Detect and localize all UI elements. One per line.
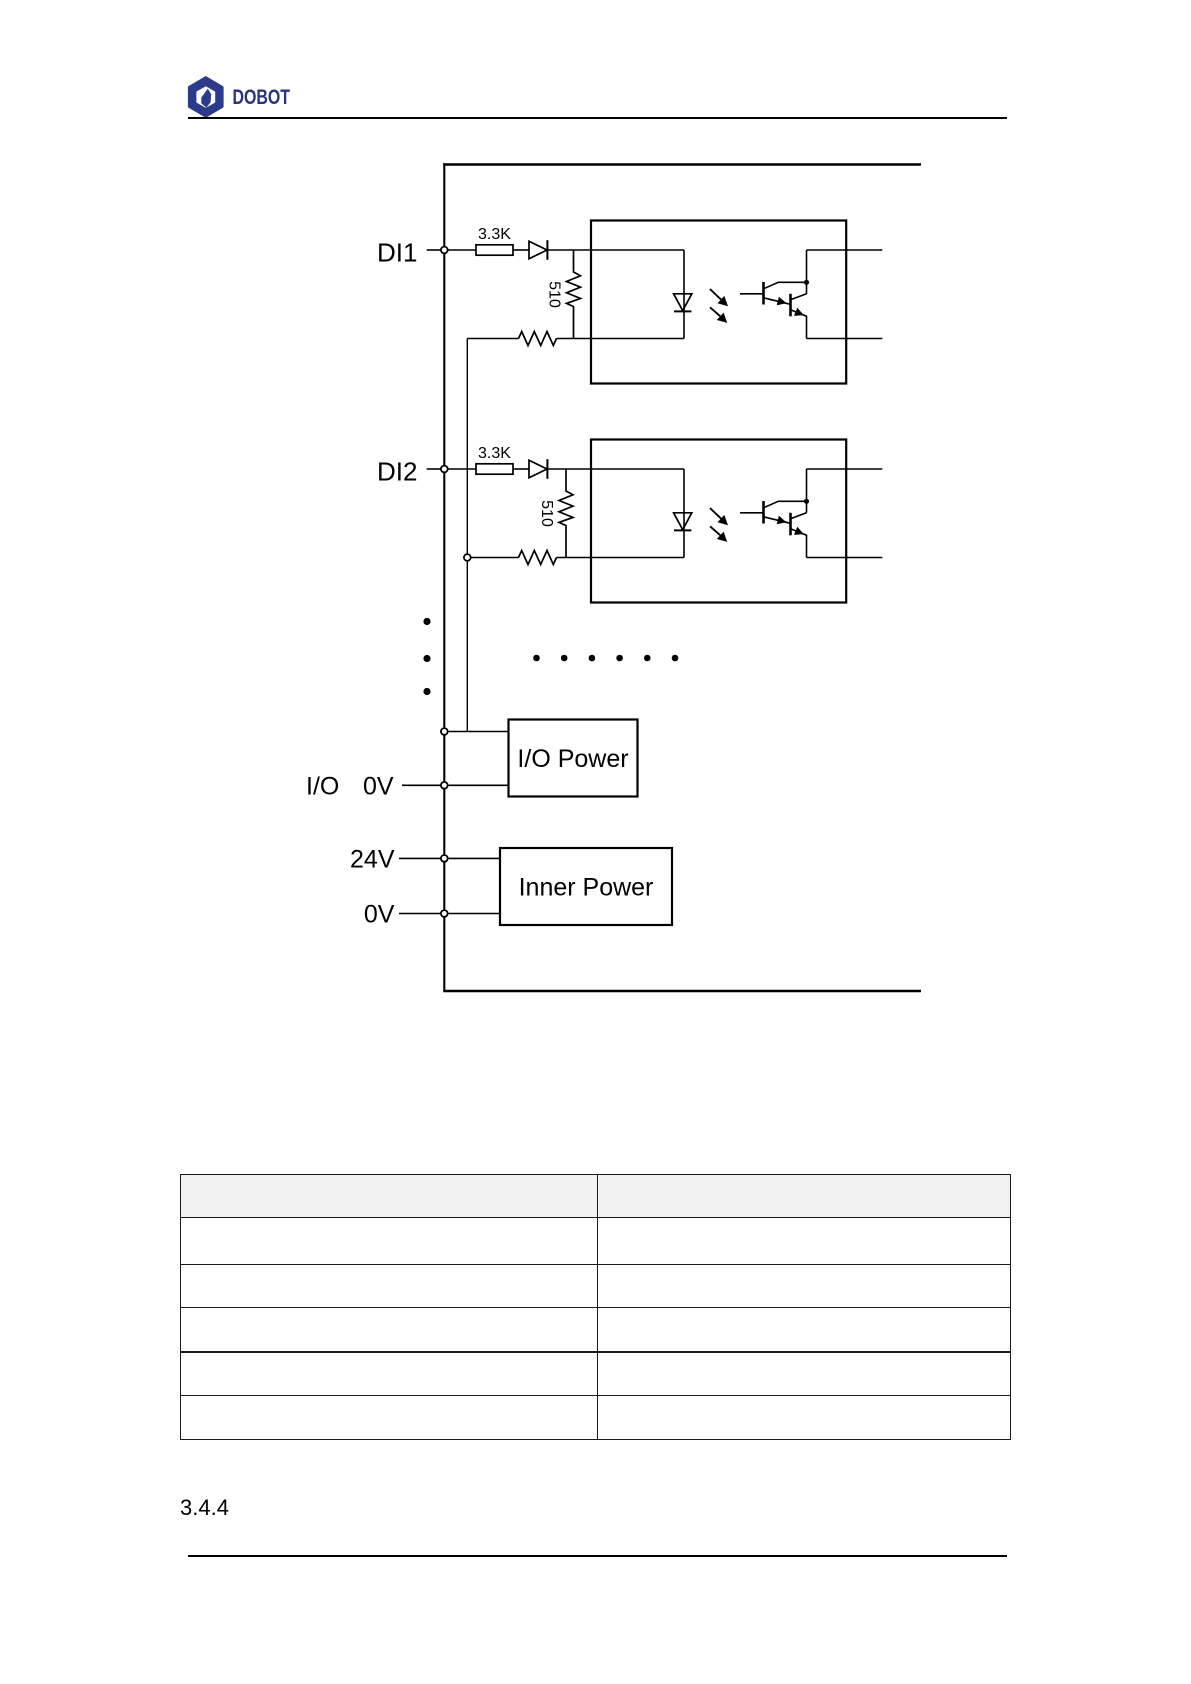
LED D2 xyxy=(683,250,685,339)
dot h5 xyxy=(644,655,651,662)
wire return line xyxy=(467,557,518,559)
wire output bottom xyxy=(807,338,883,340)
logo inner ring xyxy=(196,86,215,108)
svg-text:0V: 0V xyxy=(364,901,395,929)
bus node circles xyxy=(441,247,448,917)
wire return line xyxy=(467,338,518,340)
transistor Q4 bar xyxy=(789,513,792,536)
wire return-to-LED xyxy=(557,338,685,340)
wire diode-to-LED xyxy=(547,249,684,251)
resistor 510 R2 xyxy=(567,250,581,339)
wire collector vertical xyxy=(806,469,808,513)
wire I/O power top xyxy=(444,731,508,733)
resistor 3.3K R4 xyxy=(476,464,513,474)
left bus wire xyxy=(443,163,445,991)
svg-text:510: 510 xyxy=(538,500,555,527)
svg-text:3.3K: 3.3K xyxy=(478,445,511,462)
transistor Q4 emitter xyxy=(791,529,807,558)
wire resistor-to-diode xyxy=(513,249,529,251)
light arrow 2 xyxy=(710,526,720,535)
transistor Q4 collector xyxy=(791,513,807,519)
table row line 4 xyxy=(180,1351,1011,1352)
resistor 3.3K R1 xyxy=(476,245,513,255)
svg-text:I/O: I/O xyxy=(306,772,339,800)
transistor Q2 bar xyxy=(789,294,792,317)
header rule xyxy=(188,117,1007,120)
transistor Q3 collector xyxy=(764,501,807,508)
logo hexagon xyxy=(189,78,222,117)
resistor R3 xyxy=(519,332,557,346)
resistor R6 xyxy=(519,551,557,565)
wire output top xyxy=(807,249,883,251)
transistor Q3 base lead xyxy=(740,512,764,514)
transistor Q3 emitter xyxy=(764,517,791,524)
light arrow 2 xyxy=(710,307,720,316)
node DI2 xyxy=(441,466,448,473)
diode D3 xyxy=(529,460,547,478)
wire output bottom xyxy=(807,557,883,559)
svg-text:3.3K: 3.3K xyxy=(478,226,511,243)
node IO 0V xyxy=(441,782,448,789)
svg-text:I/O Power: I/O Power xyxy=(517,745,628,773)
DOBOT logo xyxy=(186,72,346,122)
wire collector vertical xyxy=(806,250,808,294)
dot v2 xyxy=(423,655,430,662)
table row line 1 xyxy=(180,1217,1011,1218)
wire 0V xyxy=(399,913,500,915)
svg-text:Inner Power: Inner Power xyxy=(519,873,654,901)
svg-text:510: 510 xyxy=(546,281,563,308)
Inner Power box xyxy=(500,848,672,925)
I/O Power box xyxy=(509,720,638,797)
table header fill xyxy=(181,1175,1010,1218)
node 24V xyxy=(441,855,448,862)
optocoupler U1 box xyxy=(591,221,846,384)
LED D4 xyxy=(683,469,685,558)
dot h3 xyxy=(589,655,596,662)
svg-text:DI1: DI1 xyxy=(377,238,417,268)
transistor Q2 collector xyxy=(791,294,807,300)
wire node-to-resistor xyxy=(448,249,476,251)
node IO power xyxy=(441,728,448,735)
resistor 510 R5 xyxy=(559,469,573,558)
table row line 2 xyxy=(180,1264,1011,1265)
vertical ellipsis dots xyxy=(423,618,678,695)
wire DI1 lead xyxy=(427,249,441,251)
wire DI2 lead xyxy=(427,468,441,470)
dot v1 xyxy=(423,618,430,625)
diode D1 xyxy=(529,241,547,259)
transistor Q1 emitter xyxy=(764,298,791,305)
table xyxy=(180,1174,1011,1440)
wire node-to-resistor xyxy=(448,468,476,470)
light arrow 1 xyxy=(710,508,721,519)
wire return-to-LED xyxy=(557,557,685,559)
dot v3 xyxy=(423,688,430,695)
node return circle xyxy=(464,554,471,561)
dot h1 xyxy=(533,655,540,662)
transistor Q1 base lead xyxy=(740,293,764,295)
bottom rail wire xyxy=(443,990,921,992)
wire resistor-to-diode xyxy=(513,468,529,470)
wire I/O 0V xyxy=(402,784,509,786)
table column divider xyxy=(597,1174,598,1439)
svg-text:DI2: DI2 xyxy=(377,457,417,487)
svg-text:0V: 0V xyxy=(363,772,394,800)
return bus wire xyxy=(466,339,468,732)
heading 3.4.4 xyxy=(180,1497,229,1519)
top rail wire xyxy=(443,163,921,165)
node DI1 xyxy=(441,247,448,254)
wire diode-to-LED xyxy=(547,468,684,470)
junction dot xyxy=(804,280,809,285)
transistor Q1 collector xyxy=(764,282,807,289)
dot h4 xyxy=(616,655,623,662)
transistor Q2 emitter xyxy=(791,310,807,339)
table row line 5 xyxy=(180,1395,1011,1396)
logo leaf xyxy=(201,89,211,108)
optocoupler U2 box xyxy=(591,440,846,603)
table row line 3 xyxy=(180,1307,1011,1308)
transistor Q1 bar xyxy=(762,282,765,305)
footer rule xyxy=(188,1555,1007,1557)
wire output top xyxy=(807,468,883,470)
light arrow 1 xyxy=(710,289,721,300)
table outer border xyxy=(180,1174,1011,1440)
wire 24V xyxy=(399,857,500,859)
node 0V xyxy=(441,910,448,917)
dot h6 xyxy=(672,655,679,662)
svg-text:24V: 24V xyxy=(350,846,395,874)
dot h2 xyxy=(561,655,568,662)
junction dot xyxy=(804,499,809,504)
transistor Q3 bar xyxy=(762,501,765,524)
